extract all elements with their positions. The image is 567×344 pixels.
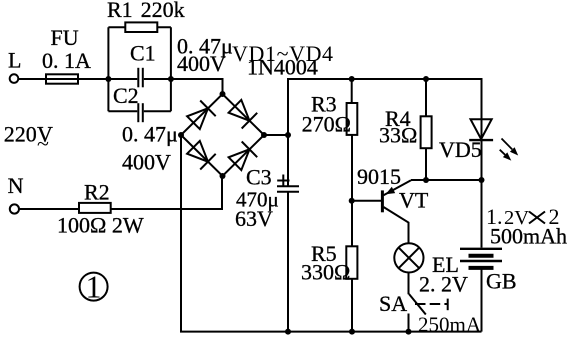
svg-text:FU: FU bbox=[51, 25, 79, 50]
svg-text:VT: VT bbox=[399, 188, 429, 213]
svg-text:400V: 400V bbox=[177, 51, 226, 76]
svg-text:100Ω 2W: 100Ω 2W bbox=[57, 213, 144, 238]
svg-text:9015: 9015 bbox=[357, 164, 401, 189]
svg-text:R2: R2 bbox=[84, 180, 110, 205]
svg-text:250mA: 250mA bbox=[418, 313, 482, 337]
svg-text:2: 2 bbox=[549, 204, 560, 229]
svg-text:220k: 220k bbox=[141, 0, 185, 22]
svg-text:C3: C3 bbox=[246, 165, 272, 190]
svg-text:0. 1A: 0. 1A bbox=[42, 48, 91, 73]
svg-text:2. 2V: 2. 2V bbox=[419, 272, 468, 297]
svg-text:0. 47μ: 0. 47μ bbox=[122, 122, 178, 147]
svg-text:1: 1 bbox=[86, 269, 102, 305]
svg-text:N: N bbox=[8, 173, 24, 198]
svg-text:470μ: 470μ bbox=[236, 188, 279, 212]
svg-text:400V: 400V bbox=[122, 150, 171, 175]
svg-text:VD5: VD5 bbox=[439, 137, 482, 162]
svg-text:~: ~ bbox=[37, 131, 49, 156]
svg-text:R1: R1 bbox=[107, 0, 133, 22]
svg-text:220: 220 bbox=[4, 122, 37, 147]
svg-text:270Ω: 270Ω bbox=[302, 112, 351, 137]
svg-text:C2: C2 bbox=[113, 83, 139, 108]
svg-text:L: L bbox=[8, 48, 21, 73]
svg-text:1.: 1. bbox=[486, 204, 503, 229]
svg-text:VD1~VD4: VD1~VD4 bbox=[232, 41, 334, 66]
svg-text:330Ω: 330Ω bbox=[301, 260, 350, 285]
svg-text:C1: C1 bbox=[130, 41, 156, 66]
svg-text:SA: SA bbox=[379, 291, 407, 316]
svg-text:GB: GB bbox=[486, 269, 517, 294]
svg-text:2V: 2V bbox=[504, 207, 529, 229]
svg-text:33Ω: 33Ω bbox=[379, 123, 417, 148]
